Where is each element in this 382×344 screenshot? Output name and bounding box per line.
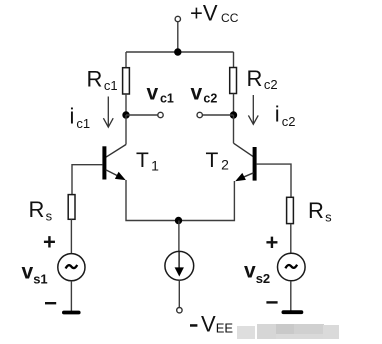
source vs1 <box>58 254 85 281</box>
svg-text:+: + <box>266 230 279 255</box>
wire Rc1 to node <box>125 94 127 115</box>
current source I0 <box>165 221 194 281</box>
wire collector2 down <box>233 115 235 143</box>
transistor T2 <box>235 147 256 181</box>
wire Rs to vs1 <box>70 219 72 253</box>
resistor Rc2 <box>230 68 237 94</box>
label minus vs2 <box>266 301 277 303</box>
wire node to vc2 terminal <box>202 114 233 116</box>
terminal -VEE <box>177 308 182 313</box>
resistor Rs left <box>68 195 75 220</box>
terminal vc2 <box>197 112 202 117</box>
label -VEE <box>190 324 197 327</box>
wire top rail <box>126 51 234 53</box>
arrow ic2 <box>248 95 258 124</box>
node collector1 <box>122 111 129 118</box>
node collector2 <box>230 111 237 118</box>
resistor Rs right <box>287 197 294 223</box>
transistor T1 <box>102 146 125 180</box>
ground left <box>62 311 81 315</box>
arrow ic1 <box>103 97 113 128</box>
wire collector2 diagonal <box>234 143 254 157</box>
wire vs2 to ground <box>290 281 292 311</box>
label minus vs1 <box>45 302 56 304</box>
terminal vc1 <box>158 112 163 117</box>
wire right rail to Rc2 <box>233 52 235 68</box>
ground right <box>282 310 304 314</box>
wire VCC vertical <box>177 22 179 52</box>
svg-text:+: + <box>43 230 56 255</box>
wire emitter2 down <box>179 181 235 221</box>
wire left rail to Rc1 <box>125 52 127 68</box>
terminal +VCC <box>175 16 180 21</box>
wire base2 <box>257 164 291 197</box>
wire collector1 diagonal <box>106 145 126 158</box>
wire base1 <box>72 165 102 195</box>
wire node to vc1 terminal <box>126 114 158 116</box>
wire emitter1 down <box>126 180 179 221</box>
wire source to terminal <box>178 280 180 307</box>
watermark <box>237 324 339 339</box>
wire vs1 to ground <box>70 281 72 311</box>
node VCC junction <box>174 48 181 55</box>
resistor Rc1 <box>123 68 130 94</box>
node emitter junction <box>175 217 182 224</box>
source vs2 <box>278 253 306 281</box>
wire Rs to vs2 <box>290 224 292 254</box>
wire Rc2 to node <box>233 94 235 116</box>
wire collector1 down <box>125 115 127 145</box>
